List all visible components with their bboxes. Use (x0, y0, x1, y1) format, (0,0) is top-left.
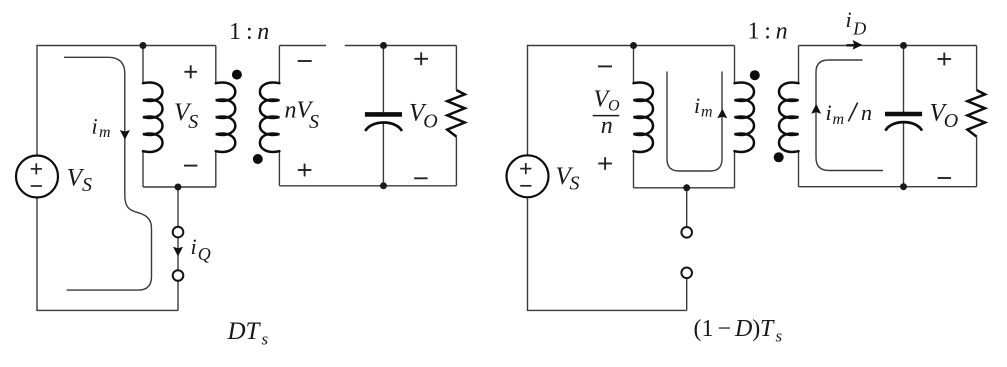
svg-text:n: n (776, 18, 788, 44)
svg-text:m: m (833, 111, 845, 128)
svg-text:1: 1 (229, 19, 241, 45)
svg-text:i: i (191, 234, 197, 259)
svg-text:O: O (944, 110, 958, 132)
svg-text:s: s (262, 330, 269, 349)
svg-text:S: S (82, 174, 92, 196)
svg-text:S: S (570, 173, 580, 195)
svg-text:O: O (423, 111, 437, 133)
svg-text::: : (246, 19, 253, 45)
svg-text:i: i (694, 93, 700, 118)
svg-text::: : (764, 18, 771, 44)
svg-text:O: O (608, 98, 620, 115)
svg-text:m: m (99, 124, 111, 141)
svg-text:i: i (826, 100, 832, 125)
svg-text:Q: Q (198, 244, 211, 264)
svg-text:D: D (852, 19, 866, 39)
svg-text:−: − (718, 316, 732, 342)
svg-text:n: n (601, 113, 613, 139)
svg-text:D: D (734, 316, 752, 342)
svg-text:DT: DT (227, 318, 262, 345)
svg-text:m: m (701, 104, 713, 121)
svg-text:n: n (257, 19, 269, 45)
svg-text:1: 1 (748, 18, 760, 44)
svg-text:s: s (776, 327, 783, 346)
svg-text:S: S (188, 111, 198, 133)
svg-text:i: i (846, 7, 852, 32)
svg-text:S: S (309, 111, 319, 133)
svg-text:T: T (760, 316, 775, 342)
svg-text:i: i (92, 114, 98, 139)
svg-text:n: n (861, 100, 872, 125)
svg-text:(1: (1 (694, 316, 714, 342)
